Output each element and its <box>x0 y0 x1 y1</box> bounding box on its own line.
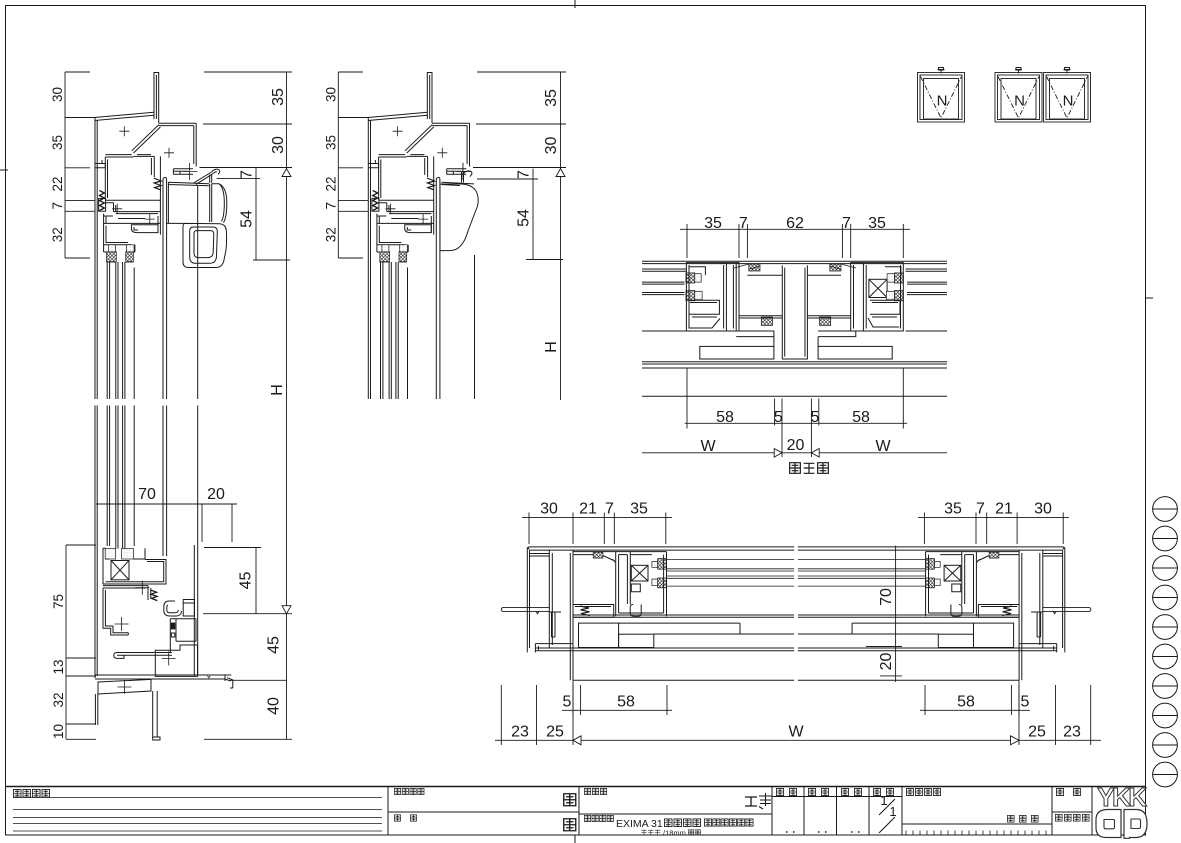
steel leg right <box>153 691 160 740</box>
ext x=818.8 center <box>818 398 820 425</box>
svg-text:30: 30 <box>50 87 65 102</box>
tick x=850.7 <box>850 224 852 234</box>
ext y=178.6 <box>217 178 260 180</box>
vent bottom rail detail <box>619 584 664 616</box>
label 工(施工) <box>410 815 416 821</box>
svg-text:5: 5 <box>811 409 820 426</box>
center mark <box>418 214 428 224</box>
svg-text:21: 21 <box>579 501 597 518</box>
vent top rail inner <box>431 156 433 234</box>
内倒し窓 <box>664 819 672 827</box>
vent glazing pocket lines (middle section) <box>381 262 383 399</box>
label 殿 (upper) <box>564 794 576 806</box>
ext x=573 bottom <box>572 685 574 715</box>
tick x=842.4 <box>841 224 843 234</box>
sill upstand walls <box>148 586 151 600</box>
mid ext y=179 <box>477 178 538 180</box>
ext x=1055.5 W-dims <box>1055 685 1057 745</box>
svg-text:45: 45 <box>238 572 255 590</box>
svg-text:25: 25 <box>546 724 564 741</box>
たて骨 character た <box>790 463 801 474</box>
bead gasket scribble <box>580 606 590 616</box>
title block frame <box>6 786 1146 788</box>
sill outer lip <box>208 675 233 688</box>
vent top rail <box>104 214 161 224</box>
7/54 dim line <box>255 168 257 261</box>
ext x=536.5 W-dims <box>536 685 538 745</box>
interior rail (sill) <box>114 653 172 659</box>
mid ext y=124 right <box>476 123 566 125</box>
label 工事名 <box>584 788 590 794</box>
23/25/W bottom dim line <box>495 739 1101 741</box>
base angle center mark <box>118 680 132 694</box>
frame bottom-left step <box>95 160 105 168</box>
ext x=903 bottom <box>902 368 904 429</box>
svg-text:H: H <box>543 341 560 353</box>
interior boards <box>579 623 619 647</box>
tilt-in dashed opening lines <box>1047 77 1088 119</box>
svg-text:40: 40 <box>266 697 283 715</box>
frame sill inner wall line <box>193 545 195 676</box>
binder circle 1 <box>1153 497 1178 522</box>
ext x=811.4 center <box>810 398 812 457</box>
latch mark <box>938 68 945 74</box>
tilt-in dashed opening lines <box>998 77 1039 119</box>
keeper center mark (middle) <box>457 163 471 180</box>
header underline of small columns <box>772 796 902 798</box>
interior gasket (7mm) <box>373 191 378 211</box>
svg-text:W: W <box>788 724 804 741</box>
label 図番 <box>1056 788 1063 795</box>
extension line y=258 <box>65 257 90 259</box>
ext x=687 bottom <box>686 368 688 429</box>
mid ext y=167.5 <box>473 167 566 169</box>
left vent gasket hatches <box>686 273 695 283</box>
ext y=124 right <box>203 123 292 125</box>
svg-text:7: 7 <box>516 170 533 179</box>
svg-text:30: 30 <box>1034 501 1052 518</box>
glazing pocket lower edge <box>104 252 135 262</box>
label 照査 <box>776 788 783 795</box>
vent inner wall lines (left section) <box>163 204 167 556</box>
mullion bottom dim line 58/5 <box>685 422 907 424</box>
glazing gasket hatch (head) <box>380 252 390 262</box>
svg-text:YKK: YKK <box>1097 782 1147 812</box>
トップラッチ <box>641 830 646 835</box>
middle right dim line (H) <box>560 72 562 400</box>
glass pane lines (W section) <box>667 560 795 587</box>
ext x=580.6 bottom <box>580 685 582 715</box>
label 殿 (lower) <box>564 819 576 831</box>
tilt-in dashed opening lines <box>921 77 962 119</box>
sill face v-notch <box>208 676 211 678</box>
ext x=573 full <box>572 680 574 745</box>
interior board (sill) <box>155 645 197 676</box>
sill dim line left <box>65 545 67 739</box>
ext 739 lower <box>738 234 740 258</box>
svg-text:20: 20 <box>787 437 805 454</box>
svg-text:7: 7 <box>605 501 614 518</box>
extension line y=167.8 <box>65 167 90 169</box>
logo letter a <box>1096 810 1121 838</box>
interior face lines upper <box>642 269 947 271</box>
sill base plate <box>95 675 231 681</box>
svg-text:7: 7 <box>976 501 985 518</box>
center mark <box>145 214 155 224</box>
right vent gasket hatches <box>894 273 903 283</box>
ext x=1017.1 <box>1016 522 1018 545</box>
ext 747 lower <box>746 234 748 258</box>
svg-text:30: 30 <box>543 137 560 155</box>
board center mark <box>162 651 176 665</box>
frame head hopper diagonal <box>132 125 161 153</box>
middle keeper curl <box>464 171 472 177</box>
ext y=72 right <box>204 71 292 73</box>
frame head mid web <box>105 155 154 157</box>
right vent inner details <box>868 267 901 327</box>
drawing-name row divider <box>579 813 772 815</box>
steel angle (head) <box>154 73 159 124</box>
jamb inner wall <box>570 550 573 680</box>
jamb outer wall <box>527 547 529 652</box>
glass pane lines (mullion left) <box>642 282 685 295</box>
ext x=501.3 W-dims <box>500 685 502 745</box>
frame head outer top plate <box>432 123 470 166</box>
interior line mid <box>654 633 794 635</box>
ext x=925 bottom <box>924 685 926 715</box>
keeper centerline <box>183 163 197 180</box>
center mark <box>437 148 447 158</box>
ext x=232 <box>231 504 233 542</box>
svg-text:35: 35 <box>944 501 962 518</box>
latch mark <box>1064 68 1071 74</box>
window symbol N2 right <box>1044 73 1091 123</box>
latch keeper plate <box>447 169 467 175</box>
svg-text:32: 32 <box>51 692 66 707</box>
head lower flange <box>379 200 434 213</box>
extension line y=200.4 <box>65 199 95 201</box>
svg-text:1: 1 <box>880 793 887 808</box>
tick x=573 <box>572 513 574 522</box>
interior plate line <box>619 623 740 634</box>
glass clip hook (sill) <box>164 601 182 616</box>
ext x=529 <box>528 522 530 545</box>
svg-text:7: 7 <box>50 202 65 210</box>
tick x=665.8 <box>665 513 667 522</box>
gap top lines <box>573 552 616 555</box>
ext 687 lower <box>686 234 688 258</box>
setting block <box>122 549 134 560</box>
H top arrow (middle) <box>556 169 565 177</box>
vent rail center mark <box>135 581 149 595</box>
tick x=903.3 <box>902 224 904 234</box>
chamber center mark <box>115 617 129 631</box>
label 作図 <box>841 788 848 795</box>
keeper stem <box>210 175 212 183</box>
middle head dim line left <box>337 72 339 258</box>
screw channel lines <box>747 274 841 276</box>
ext x=604.3 <box>603 522 605 545</box>
svg-text:21: 21 <box>995 501 1013 518</box>
binder circle 9 <box>1153 733 1178 758</box>
svg-text:35: 35 <box>630 501 648 518</box>
wall face lines (mullion top) <box>642 261 947 263</box>
H top arrow <box>282 169 291 177</box>
svg-text:32: 32 <box>50 227 65 242</box>
sill bottom line to dim <box>229 679 287 681</box>
45 upper dim <box>255 548 257 614</box>
vent stile inner wall cap <box>163 177 167 204</box>
interior face mid lines <box>739 316 851 318</box>
svg-text:13: 13 <box>51 659 66 674</box>
svg-text:20: 20 <box>207 486 225 503</box>
approval date ruler ticks <box>906 831 1046 836</box>
latch connector line <box>167 222 185 224</box>
mullion top dim line <box>680 228 910 230</box>
wall stub left (capsule) <box>501 608 549 614</box>
mullion tube <box>782 265 807 359</box>
svg-text:58: 58 <box>957 694 975 711</box>
vent inner wall lines (middle section) <box>436 204 440 399</box>
label 工事 (large) <box>745 797 757 806</box>
svg-text:5: 5 <box>774 409 783 426</box>
svg-text:23: 23 <box>511 724 529 741</box>
svg-text:35: 35 <box>323 135 338 150</box>
svg-text:75: 75 <box>51 594 66 609</box>
vent glazing pocket <box>104 223 135 252</box>
head chamber box <box>379 156 428 199</box>
W dim line (mullion) <box>642 452 947 454</box>
latch grip outer shell <box>183 223 227 267</box>
ext x=202 <box>201 504 203 542</box>
ext x=665.8 <box>665 522 667 545</box>
svg-text:/18mm: /18mm <box>663 829 686 838</box>
svg-text:30: 30 <box>540 501 558 518</box>
vent operator curved cap <box>212 184 227 223</box>
ext y=547.5 <box>204 547 261 549</box>
frame sill top face <box>103 586 148 588</box>
svg-text:22: 22 <box>323 176 338 191</box>
ext 851 lower <box>850 234 852 258</box>
window symbol N1 <box>918 73 965 123</box>
vent top gasket scribble <box>427 178 435 190</box>
bottom plate lines <box>535 644 794 653</box>
tick x=739 <box>738 224 740 234</box>
latch grip hole outer <box>190 227 218 263</box>
vent exterior face line (middle section) <box>474 255 476 399</box>
svg-text:35: 35 <box>270 88 287 106</box>
binder circle 7 <box>1153 674 1178 699</box>
right dim line (H) <box>286 72 288 739</box>
label 年月日 <box>1007 815 1014 822</box>
svg-text:5: 5 <box>563 694 572 711</box>
steel angle (head) <box>427 73 432 124</box>
ext x=667 bottom <box>666 685 668 715</box>
label 変更記事 <box>13 789 21 797</box>
glass pane lines (mullion right) <box>907 282 947 295</box>
extension line y=72 <box>65 71 90 73</box>
label 設計監理 <box>394 788 400 794</box>
svg-text:7: 7 <box>323 202 338 210</box>
label 通し図番 <box>1055 814 1062 821</box>
mid extension y=72 <box>338 71 363 73</box>
tick x=529 <box>528 513 530 522</box>
ext 903 lower <box>902 234 904 258</box>
center mark <box>119 126 129 136</box>
glazing bead edge line (left section) <box>133 268 135 547</box>
glazing clamp X-box (sill) <box>111 561 129 580</box>
svg-text:35: 35 <box>868 215 886 232</box>
svg-text:5: 5 <box>1021 694 1030 711</box>
sill upstand gasket scribble <box>151 590 158 601</box>
glazing pocket lower edge <box>377 252 408 262</box>
binder circle 3 <box>1153 556 1178 581</box>
tick x=1017.1 <box>1016 513 1018 522</box>
frame head sloped capping <box>95 112 154 120</box>
vent operator body <box>210 184 212 222</box>
mid extension y=211.3 <box>338 210 368 212</box>
svg-text:45: 45 <box>266 636 283 654</box>
keeper centerline <box>457 163 471 180</box>
setting blocks (head) <box>109 245 116 252</box>
frame jamb wall lines (middle section) <box>368 118 370 400</box>
svg-text:H: H <box>269 384 286 396</box>
ext x=573 <box>572 522 574 545</box>
head lower flange <box>105 200 160 213</box>
glazing gasket hatch (head) <box>107 252 117 262</box>
label 御承認印 <box>906 788 913 795</box>
svg-text:35: 35 <box>704 215 722 232</box>
label 施 <box>394 815 400 821</box>
left vent stile box <box>686 263 739 331</box>
ext x=614.3 <box>613 522 615 545</box>
latch mark <box>1015 68 1022 74</box>
latch keeper plate <box>173 169 193 175</box>
latch grip hole inner <box>194 231 214 258</box>
ext y=613.7 right <box>203 613 292 615</box>
ext x=1019 bottom <box>1018 685 1020 715</box>
middle section head profile (reuse) <box>368 73 471 262</box>
binder circle 2 <box>1153 526 1178 551</box>
mid extension y=167.8 <box>338 167 363 169</box>
svg-text:30: 30 <box>323 87 338 102</box>
svg-text:10: 10 <box>51 724 66 739</box>
svg-text:54: 54 <box>239 210 256 228</box>
interior stop block <box>99 198 106 211</box>
interior gasket (7mm) <box>99 191 104 211</box>
steel base angle (sloped) <box>98 679 151 694</box>
mid extension y=200.4 <box>338 199 368 201</box>
center mark <box>393 126 403 136</box>
tick y=675.9 <box>880 675 902 677</box>
frame head hopper diagonal <box>405 125 434 153</box>
svg-text:22: 22 <box>50 176 65 191</box>
bottom 5/58 dim lines <box>562 709 1030 711</box>
70/20 dim (sill top) <box>96 503 237 505</box>
svg-text:32: 32 <box>323 227 338 242</box>
bottom closure line <box>573 679 794 681</box>
sill extension y=739.3 <box>66 738 96 740</box>
head dim line left <box>64 72 66 258</box>
tick x=986.7 <box>986 513 988 522</box>
extension line y=211.3 <box>65 210 95 212</box>
signature dots <box>786 831 860 833</box>
interior stop block <box>372 198 379 211</box>
svg-text:N: N <box>1014 93 1025 110</box>
mullion step plates <box>736 331 856 346</box>
svg-text:N: N <box>1063 93 1074 110</box>
frame head mid web <box>379 155 428 157</box>
jamb anchor detail <box>549 612 561 637</box>
lower gasket scribbles <box>761 317 772 325</box>
frame head sloped capping <box>368 112 427 120</box>
svg-text:58: 58 <box>852 409 870 426</box>
zuban cell divider <box>1052 811 1092 813</box>
glass pane lines (left section) <box>116 262 125 549</box>
ext x=924.4 <box>923 522 925 545</box>
sill extension y=658 <box>66 657 96 659</box>
gasket lip diagonal <box>603 556 615 563</box>
svg-text:25: 25 <box>1028 724 1046 741</box>
溝幅 <box>688 830 693 835</box>
label 担当 <box>808 788 815 795</box>
head chamber box <box>105 156 154 199</box>
たて骨 character て <box>804 463 815 473</box>
たて骨 character 骨 <box>818 463 829 474</box>
setting block <box>105 549 116 560</box>
svg-text:7: 7 <box>842 215 851 232</box>
frame jamb wall lines (left section) <box>95 118 97 679</box>
top capping line <box>528 547 794 550</box>
tick x=614.3 <box>613 513 615 522</box>
jamb top web <box>530 554 550 557</box>
vent glazing pocket lines (left section) <box>107 262 109 546</box>
svg-text:54: 54 <box>516 209 533 227</box>
vent exterior face plate (middle) <box>441 182 474 185</box>
vent stile inner wall cap <box>436 177 440 204</box>
glazing bead (head) <box>131 225 158 233</box>
ext y=260 <box>253 259 290 261</box>
glazing bead (head) <box>405 225 432 233</box>
frame bottom-left step <box>368 160 378 168</box>
operator cover blob <box>440 184 478 251</box>
tick x=747.4 <box>746 224 748 234</box>
svg-text:N: N <box>937 93 948 110</box>
W arrow right (open) <box>811 449 819 458</box>
ext x=782 center <box>781 398 783 457</box>
svg-text:7: 7 <box>239 170 256 179</box>
logo letter p <box>1124 810 1147 839</box>
right vent stile box <box>851 263 904 331</box>
vent glazing X-box <box>631 565 648 581</box>
W section left half <box>501 547 794 680</box>
ext x=986.7 <box>986 522 988 545</box>
interior finish line <box>642 395 947 397</box>
W arrow left (open) <box>774 449 782 458</box>
ext x=1019 full <box>1018 680 1020 745</box>
svg-text:W: W <box>700 438 716 455</box>
column dividers <box>578 787 580 836</box>
label 図面内容 <box>584 815 590 821</box>
svg-text:W: W <box>875 438 891 455</box>
ext x=976 <box>975 522 977 545</box>
svg-text:35: 35 <box>50 135 65 150</box>
right registration tick <box>1145 297 1153 299</box>
svg-text:EXIMA 31: EXIMA 31 <box>616 818 663 830</box>
vent glazing pocket <box>377 223 408 252</box>
mid ext y=259.5 <box>526 259 563 261</box>
center mark <box>112 204 122 214</box>
